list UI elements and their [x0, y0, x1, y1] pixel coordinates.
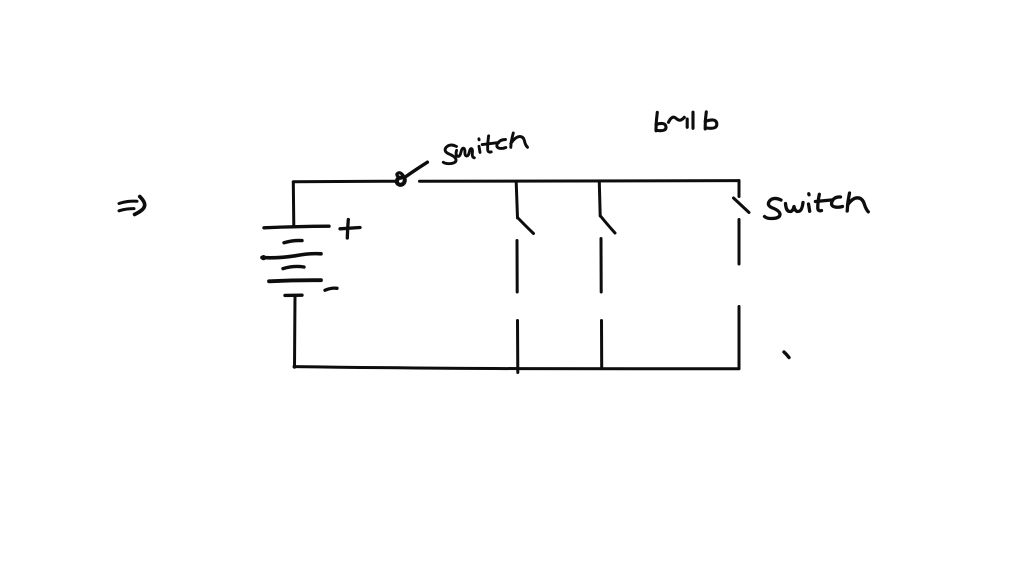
switch S1 pivot hook — [397, 173, 403, 177]
wire top-left vertical from battery + terminal — [292, 182, 296, 226]
wire top horizontal right segment — [420, 179, 740, 183]
battery B1 short plate 4 — [283, 266, 304, 268]
switch S1 pivot loop — [397, 177, 405, 184]
label Switch (top, for S1) — [443, 133, 527, 164]
lamp branch L2 lower segment — [600, 321, 603, 369]
lamp branch L2 blade hook — [601, 216, 616, 233]
lamp branch L1 blade hook — [518, 218, 534, 234]
arrow => implication marker — [119, 197, 145, 215]
battery B1 plate 3 ink blob — [261, 255, 266, 260]
wire bottom horizontal — [294, 367, 739, 369]
battery B1 short plate 2 — [284, 240, 302, 242]
switch S1 blade — [406, 162, 428, 176]
wire top horizontal left segment — [293, 180, 396, 184]
battery B1 long plate 5 — [269, 280, 321, 281]
switch S2 branch middle segment — [738, 220, 741, 265]
switch S2 branch lower segment — [738, 307, 741, 369]
wire bottom-left vertical from battery - terminal — [293, 296, 297, 368]
battery B1 bottom short plate 6 — [285, 294, 302, 298]
label Switch (right, for S2) — [765, 193, 869, 219]
battery - sign — [325, 288, 337, 290]
lamp branch L1 middle segment — [516, 241, 519, 293]
lamp branch L2 top stub — [598, 182, 602, 216]
switch S2 blade tick — [734, 198, 750, 213]
battery B1 long wavy plate 3 — [262, 254, 321, 258]
switch S2 branch top stub — [738, 181, 741, 197]
battery B1 positive plate (top long) — [264, 226, 329, 228]
lamp branch L1 top stub — [516, 182, 517, 218]
battery + sign — [340, 220, 360, 239]
stray pen tick near bottom right — [784, 352, 789, 358]
lamp branch L2 middle segment — [600, 239, 603, 293]
lamp branch L1 lower segment — [516, 321, 519, 373]
label bulb (top right) — [656, 112, 717, 131]
